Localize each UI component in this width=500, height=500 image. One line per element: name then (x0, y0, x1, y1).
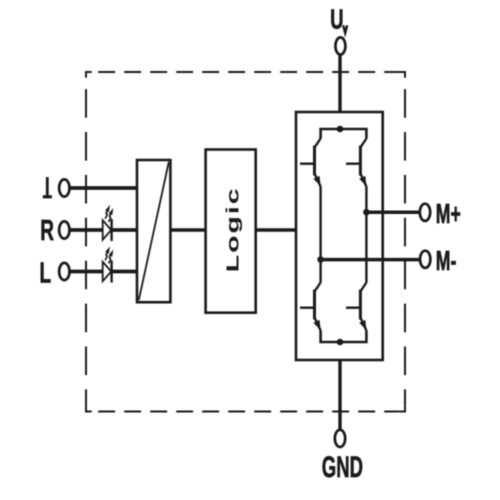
wire top rail (321, 129, 367, 139)
svg-text:M+: M+ (436, 198, 461, 229)
svg-text:R: R (40, 215, 54, 247)
wire L input (70, 270, 137, 274)
terminal GND (335, 430, 345, 447)
transistor Q3 bottom-left (300, 283, 321, 331)
svg-text:M-: M- (436, 245, 457, 276)
wire left column (319, 187, 321, 283)
svg-text:U: U (330, 5, 343, 36)
terminal U_v (335, 37, 345, 54)
wire U_v stem (338, 55, 341, 129)
wire M+ output (366, 210, 419, 214)
terminal L (59, 263, 69, 280)
wire ground input (70, 186, 137, 190)
svg-text:Logic: Logic (222, 186, 242, 272)
terminal M- (420, 251, 430, 268)
label U_v subscript v (343, 25, 347, 33)
logic block U2 (206, 150, 256, 313)
node M- junction (317, 256, 324, 263)
LED D1 on R line (103, 205, 114, 241)
node M+ junction (363, 209, 370, 216)
H-bridge box (296, 112, 383, 360)
module boundary dashed border (86, 72, 405, 412)
wire R input (70, 228, 137, 232)
label perpendicular ground symbol (43, 177, 52, 197)
terminal R (59, 221, 69, 238)
terminal M+ (420, 204, 430, 221)
node U_v junction (337, 126, 344, 133)
wire right column (365, 187, 367, 283)
node GND junction (337, 339, 344, 346)
converter block U1 (137, 160, 170, 302)
transistor Q1 top-left (300, 139, 321, 187)
wire bottom rail (321, 331, 367, 343)
svg-text:L: L (40, 258, 52, 290)
LED D2 on L line (103, 246, 114, 282)
wire logic to bridge (256, 228, 296, 231)
transistor Q4 bottom-right (346, 283, 367, 331)
wire M- output (321, 258, 420, 262)
svg-text:GND: GND (322, 452, 363, 484)
transistor Q2 top-right (346, 139, 367, 187)
wire GND stem (338, 342, 341, 430)
terminal ground input (59, 179, 69, 196)
wire converter to logic (170, 228, 205, 231)
